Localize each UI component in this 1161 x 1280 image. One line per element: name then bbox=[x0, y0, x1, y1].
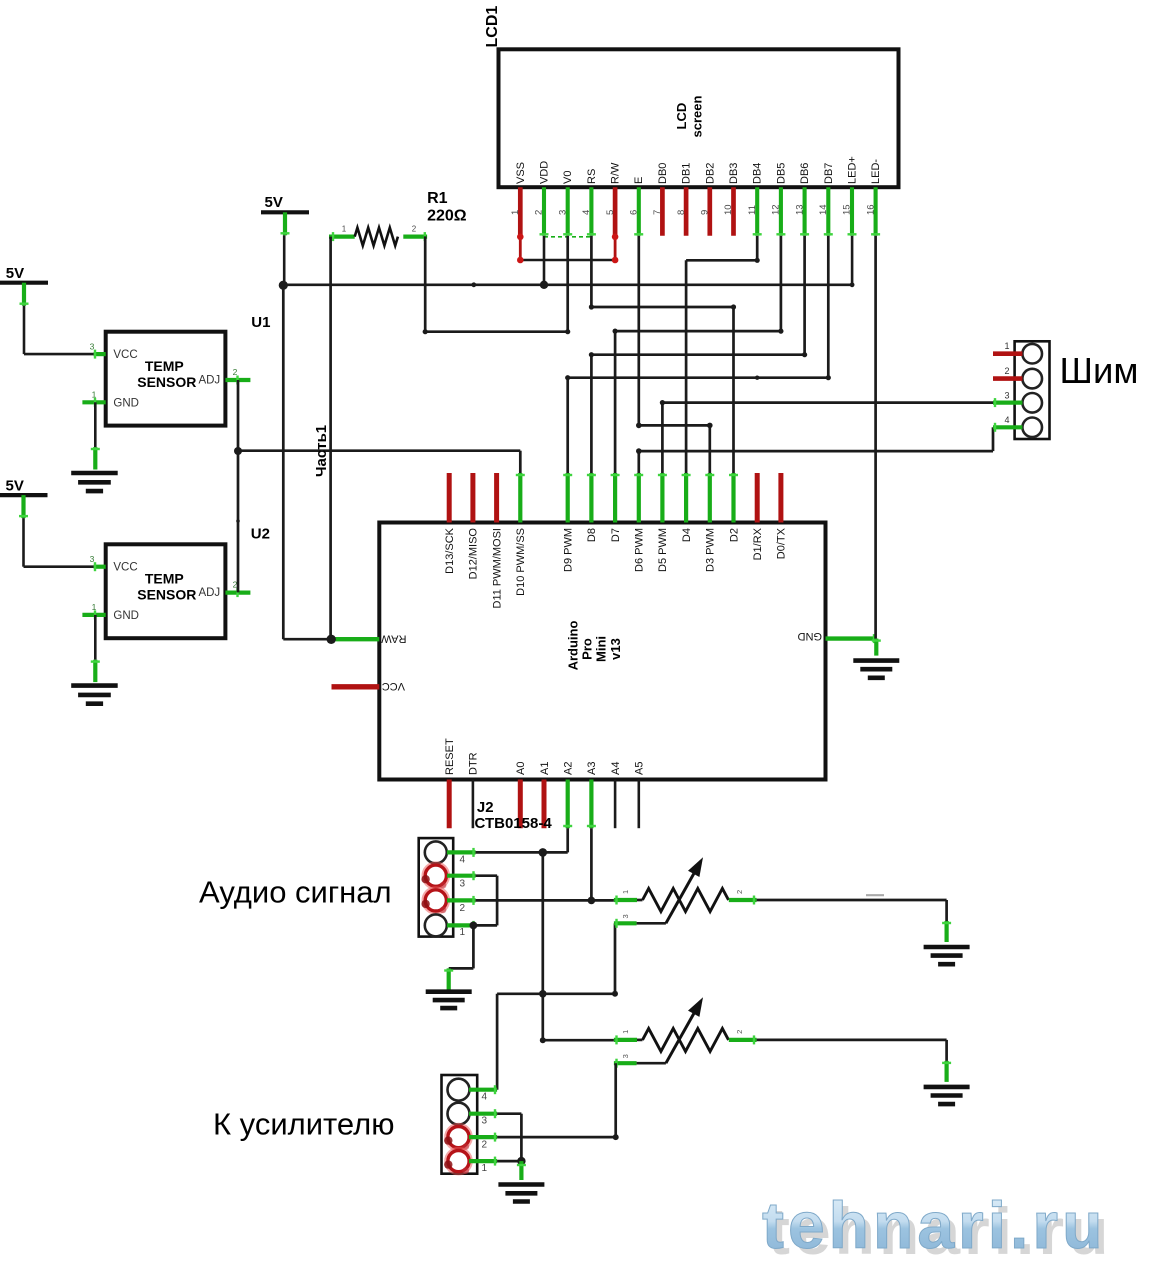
svg-text:4: 4 bbox=[581, 210, 592, 215]
svg-text:VCC: VCC bbox=[113, 562, 137, 574]
svg-text:RS: RS bbox=[586, 169, 598, 184]
svg-text:D0/TX: D0/TX bbox=[776, 527, 788, 559]
svg-text:14: 14 bbox=[818, 204, 829, 215]
svg-text:1: 1 bbox=[92, 602, 97, 612]
svg-text:ADJ: ADJ bbox=[198, 374, 220, 386]
svg-text:12: 12 bbox=[771, 204, 782, 215]
svg-text:RAW: RAW bbox=[381, 632, 407, 644]
svg-text:TEMP: TEMP bbox=[145, 571, 184, 587]
svg-text:R1: R1 bbox=[427, 190, 448, 207]
svg-text:1: 1 bbox=[460, 927, 466, 938]
svg-text:5: 5 bbox=[605, 210, 616, 215]
svg-text:3: 3 bbox=[90, 342, 95, 352]
svg-text:3: 3 bbox=[621, 914, 630, 918]
svg-text:DB3: DB3 bbox=[728, 163, 740, 184]
svg-text:tehnari.ru: tehnari.ru bbox=[762, 1188, 1106, 1262]
svg-text:D9 PWM: D9 PWM bbox=[563, 528, 575, 572]
svg-text:v13: v13 bbox=[608, 638, 623, 660]
svg-text:DTR: DTR bbox=[468, 752, 480, 775]
svg-text:VCC: VCC bbox=[382, 680, 405, 692]
svg-text:D12/MISO: D12/MISO bbox=[468, 528, 480, 580]
svg-text:A3: A3 bbox=[586, 762, 598, 775]
svg-text:VDD: VDD bbox=[539, 161, 551, 184]
svg-text:DB7: DB7 bbox=[823, 163, 835, 184]
svg-text:2: 2 bbox=[735, 890, 744, 894]
svg-text:3: 3 bbox=[557, 210, 568, 215]
svg-text:4: 4 bbox=[482, 1092, 488, 1103]
svg-text:A5: A5 bbox=[634, 762, 646, 775]
svg-text:Pro: Pro bbox=[579, 638, 594, 660]
svg-text:D8: D8 bbox=[586, 528, 598, 542]
svg-text:A2: A2 bbox=[563, 762, 575, 775]
svg-text:3: 3 bbox=[460, 879, 466, 890]
svg-text:D10 PWM/SS: D10 PWM/SS bbox=[515, 528, 527, 596]
svg-text:3: 3 bbox=[621, 1054, 630, 1058]
svg-text:5V: 5V bbox=[6, 265, 24, 282]
svg-text:8: 8 bbox=[676, 210, 687, 215]
svg-text:LED-: LED- bbox=[870, 159, 882, 184]
svg-text:К усилителю: К усилителю bbox=[213, 1107, 394, 1142]
svg-text:J2: J2 bbox=[477, 799, 494, 816]
svg-text:SENSOR: SENSOR bbox=[137, 586, 196, 602]
svg-text:A1: A1 bbox=[539, 762, 551, 775]
svg-text:1: 1 bbox=[482, 1163, 488, 1174]
svg-text:VSS: VSS bbox=[515, 162, 527, 184]
svg-text:2: 2 bbox=[412, 225, 417, 234]
svg-text:11: 11 bbox=[747, 205, 758, 215]
svg-text:D3 PWM: D3 PWM bbox=[705, 528, 717, 572]
svg-text:D5 PWM: D5 PWM bbox=[657, 528, 669, 572]
svg-text:GND: GND bbox=[113, 398, 139, 410]
svg-text:СТВ0158-4: СТВ0158-4 bbox=[475, 815, 553, 832]
svg-text:3: 3 bbox=[90, 554, 95, 564]
svg-text:9: 9 bbox=[700, 210, 711, 215]
svg-text:Часть1: Часть1 bbox=[313, 425, 330, 477]
svg-text:5V: 5V bbox=[6, 478, 24, 495]
svg-text:DB2: DB2 bbox=[704, 163, 716, 184]
svg-text:13: 13 bbox=[794, 204, 805, 215]
svg-text:Arduino: Arduino bbox=[565, 621, 580, 671]
svg-text:ADJ: ADJ bbox=[198, 587, 220, 599]
svg-text:1: 1 bbox=[1004, 341, 1009, 351]
svg-text:5V: 5V bbox=[265, 194, 283, 211]
svg-text:2: 2 bbox=[735, 1030, 744, 1034]
svg-text:E: E bbox=[633, 177, 645, 184]
svg-text:SENSOR: SENSOR bbox=[137, 374, 196, 390]
svg-text:3: 3 bbox=[1004, 390, 1009, 400]
svg-text:DB0: DB0 bbox=[657, 163, 669, 184]
svg-text:220Ω: 220Ω bbox=[427, 207, 467, 224]
svg-text:D11 PWM/MOSI: D11 PWM/MOSI bbox=[491, 528, 503, 608]
svg-text:LCD: LCD bbox=[674, 103, 689, 130]
svg-text:1: 1 bbox=[621, 1030, 630, 1034]
svg-text:D4: D4 bbox=[681, 528, 693, 542]
svg-text:4: 4 bbox=[460, 855, 466, 866]
svg-text:GND: GND bbox=[798, 630, 823, 642]
svg-text:RESET: RESET bbox=[444, 738, 456, 775]
svg-text:U2: U2 bbox=[251, 526, 270, 543]
svg-text:DB1: DB1 bbox=[681, 163, 693, 184]
svg-text:U1: U1 bbox=[251, 314, 270, 331]
svg-text:VCC: VCC bbox=[113, 349, 137, 361]
svg-text:Mini: Mini bbox=[594, 636, 609, 662]
svg-text:D6 PWM: D6 PWM bbox=[634, 528, 646, 572]
svg-text:1: 1 bbox=[510, 210, 521, 215]
svg-text:GND: GND bbox=[113, 610, 139, 622]
svg-text:2: 2 bbox=[233, 367, 238, 377]
svg-text:DB6: DB6 bbox=[799, 163, 811, 184]
svg-text:15: 15 bbox=[842, 204, 853, 215]
svg-text:D13/SCK: D13/SCK bbox=[444, 527, 456, 574]
svg-text:1: 1 bbox=[621, 890, 630, 894]
svg-text:6: 6 bbox=[629, 210, 640, 215]
svg-text:1: 1 bbox=[342, 225, 347, 234]
svg-text:7: 7 bbox=[652, 210, 663, 215]
svg-text:Аудио сигнал: Аудио сигнал bbox=[199, 875, 392, 910]
svg-text:LED+: LED+ bbox=[847, 156, 859, 184]
svg-text:D2: D2 bbox=[728, 528, 740, 542]
svg-text:V0: V0 bbox=[562, 171, 574, 184]
svg-text:2: 2 bbox=[1004, 366, 1009, 376]
svg-text:10: 10 bbox=[723, 204, 734, 215]
svg-text:A0: A0 bbox=[515, 762, 527, 775]
svg-text:TEMP: TEMP bbox=[145, 358, 184, 374]
svg-text:DB4: DB4 bbox=[752, 163, 764, 184]
svg-text:2: 2 bbox=[460, 903, 466, 914]
svg-text:A4: A4 bbox=[610, 762, 622, 775]
svg-text:1: 1 bbox=[92, 390, 97, 400]
svg-text:screen: screen bbox=[690, 96, 705, 138]
svg-text:2: 2 bbox=[482, 1140, 488, 1151]
svg-text:16: 16 bbox=[865, 204, 876, 215]
svg-text:R/W: R/W bbox=[610, 162, 622, 184]
svg-text:Шим: Шим bbox=[1060, 350, 1139, 391]
svg-text:2: 2 bbox=[534, 210, 545, 215]
svg-text:D7: D7 bbox=[610, 528, 622, 542]
svg-text:4: 4 bbox=[1004, 415, 1009, 425]
svg-text:D1/RX: D1/RX bbox=[752, 527, 764, 560]
svg-text:DB5: DB5 bbox=[775, 163, 787, 184]
svg-text:3: 3 bbox=[482, 1116, 488, 1127]
svg-text:LCD1: LCD1 bbox=[484, 6, 501, 48]
